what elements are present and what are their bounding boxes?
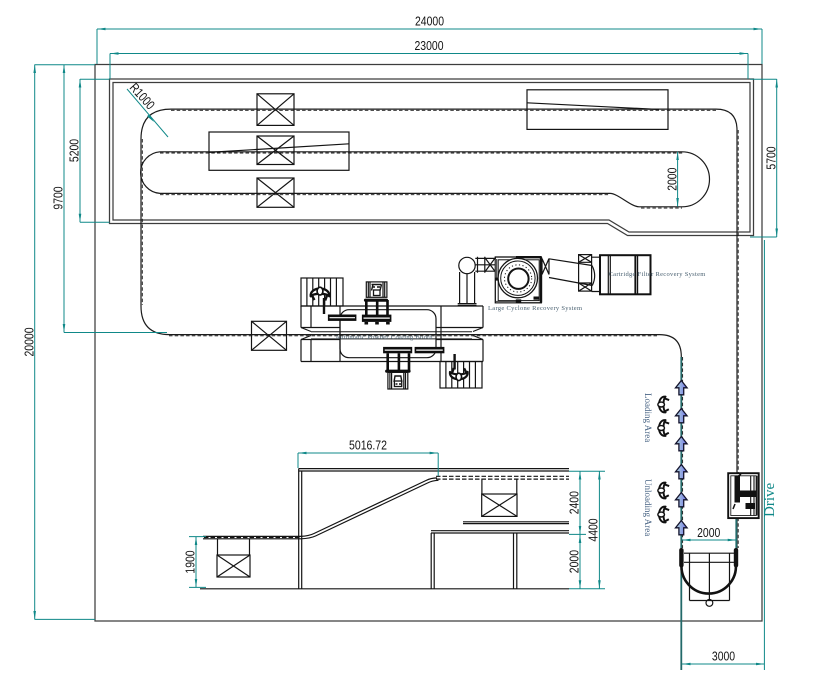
outer boundary wall [95,65,762,622]
cyclone circles [498,258,537,297]
dimension 2000 track u-turn [664,152,679,207]
turntable pivot circle [706,600,713,607]
duct flange X left [478,257,485,273]
booth body outline [301,306,483,362]
dimension 2400 [567,471,582,534]
gun bar A [328,315,357,321]
gun machine bottom box [388,372,408,389]
svg-text:5200: 5200 [67,139,82,162]
elevation low platform rail [203,536,301,538]
loading area worker 2 [658,420,669,436]
svg-text:Unloading Area: Unloading Area [643,479,653,536]
svg-text:2400: 2400 [567,491,582,514]
svg-text:Loading Area: Loading Area [643,393,653,442]
dimension 9700 [51,65,168,333]
cartridge filter box [600,255,651,294]
svg-text:Cartridge Filter Recovery Syst: Cartridge Filter Recovery System [609,271,706,278]
operator figure booth bottom [450,354,468,381]
transfer rectangle top right [527,90,668,130]
drive unit box [728,473,759,518]
svg-text:5016.72: 5016.72 [349,438,387,453]
dimension 23000 [110,38,748,79]
dimension 1900 [183,537,207,588]
unloading area worker 1 [658,483,669,499]
svg-text:9700: 9700 [51,186,66,209]
reciprocator top legs [364,299,388,316]
duct horizontal pipe [475,258,496,271]
operator figure booth top [311,287,330,314]
oven room wall inner line [113,83,750,233]
dimension 2000 elevation [567,534,582,588]
booth inner rounded chamber [340,310,436,358]
hanger crossed box 1 (top row) [257,94,294,126]
elevation left crossed box [217,539,250,577]
diagonal pipe to filter [549,259,595,286]
turntable arc [682,564,736,594]
hanger crossed box 2 (middle row) [257,136,294,165]
track chain dashes [142,110,738,548]
oven room wall outer line [110,79,754,236]
dimension 5200 [67,79,110,222]
duct elbow circle [459,257,475,273]
turntable frame lines [684,553,734,562]
filter connector lines [592,257,600,291]
svg-text:5700: 5700 [764,146,779,169]
cyclone corner wedges [495,256,539,303]
duct riser from booth [458,272,477,305]
hanger crossed box near booth [252,321,287,350]
radius leader R1000 [127,80,168,137]
dimension 20000 [22,65,96,620]
svg-text:1900: 1900 [183,550,198,573]
cyclone outlet flange X [542,259,549,275]
svg-text:2000: 2000 [567,550,582,573]
dimension 4400 [569,471,605,589]
dimension 3000 [682,240,765,670]
svg-text:23000: 23000 [415,38,444,53]
elevation left post [299,469,302,589]
conveyor track inner accumulation loop [141,152,710,207]
loading area worker 1 [658,397,669,413]
svg-text:3000: 3000 [712,649,735,664]
svg-text:Large Cyclone Recovery System: Large Cyclone Recovery System [488,305,582,312]
svg-text:24000: 24000 [415,14,444,29]
reciprocator bottom legs [385,353,411,373]
dimension 5016.72 [298,438,438,477]
cyclone box [495,257,541,303]
gun bar C [383,347,412,353]
elevation right posts [431,533,517,589]
loading area up arrows [676,381,688,535]
filter inlet flange frame [579,255,592,292]
svg-text:2000: 2000 [697,525,720,540]
gun machine top box [366,282,387,297]
dimension 5700 [750,79,779,237]
svg-text:Automatic Powder Coating Booth: Automatic Powder Coating Booth [335,334,433,341]
conveyor track main path [141,109,737,548]
svg-text:2000: 2000 [664,168,679,191]
gun bar B [362,315,392,325]
elevation incline rail [301,478,439,539]
svg-text:20000: 20000 [22,328,37,357]
booth operator station striped box top-left [301,278,343,306]
elevation upper deck rail [299,469,569,480]
elevation hanging crossed box [482,479,517,517]
unloading area worker 2 [658,507,669,523]
hanger crossed box 3 (bottom row) [257,178,294,207]
dimension 24000 [97,14,762,65]
elevation mid platform [463,522,569,524]
transfer rectangle middle row [209,132,349,170]
loading line teal base [681,357,736,670]
dimension 2000 turntable [682,525,736,540]
gun bar D [415,347,445,353]
booth operator station striped box bottom-right [440,362,482,389]
svg-text:4400: 4400 [586,518,601,541]
elevation low right platform [431,531,569,533]
elevation ground line [200,588,569,590]
turntable inner frame [690,553,730,600]
turntable side bars [679,548,738,568]
